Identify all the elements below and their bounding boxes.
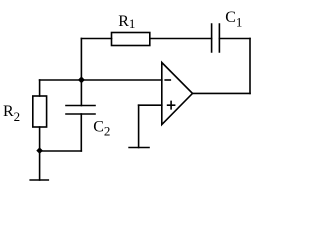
- svg-text:C1: C1: [225, 9, 242, 29]
- capacitor C2: [66, 106, 95, 115]
- wire right rail down: [249, 39, 251, 94]
- wire node A vertical riser: [80, 39, 82, 81]
- ground bar op-amp: [129, 147, 149, 149]
- ground stub op-amp: [138, 105, 140, 147]
- svg-text:R1: R1: [118, 13, 135, 31]
- wire bottom node B to C2: [40, 150, 82, 152]
- op-amp plus pin label: [168, 101, 175, 108]
- capacitor C1: [212, 24, 220, 52]
- resistor R2: [33, 96, 47, 127]
- wire R1 to C1: [150, 38, 212, 40]
- wire node A to op-amp inverting input: [40, 79, 162, 81]
- wire left drop to R2: [39, 80, 41, 96]
- op-amp minus pin label: [165, 79, 170, 81]
- svg-text:C2: C2: [93, 118, 110, 138]
- op-amp U1: [162, 63, 193, 125]
- wire op-amp noninverting input: [139, 104, 162, 106]
- svg-text:R2: R2: [3, 103, 20, 124]
- wire C1 to right corner: [219, 38, 250, 40]
- wire feedback / op-amp output: [193, 92, 251, 94]
- node B junction dot: [36, 147, 43, 154]
- resistor R1: [112, 33, 150, 46]
- wire top rail left (node A to R1): [81, 38, 111, 40]
- wire C2 bottom stub: [80, 114, 82, 151]
- wire R2 bottom: [39, 127, 41, 151]
- wire C2 top stub to node A: [80, 80, 82, 106]
- ground stub left: [39, 151, 41, 180]
- node A junction dot: [78, 76, 85, 83]
- ground bar left: [30, 179, 48, 181]
